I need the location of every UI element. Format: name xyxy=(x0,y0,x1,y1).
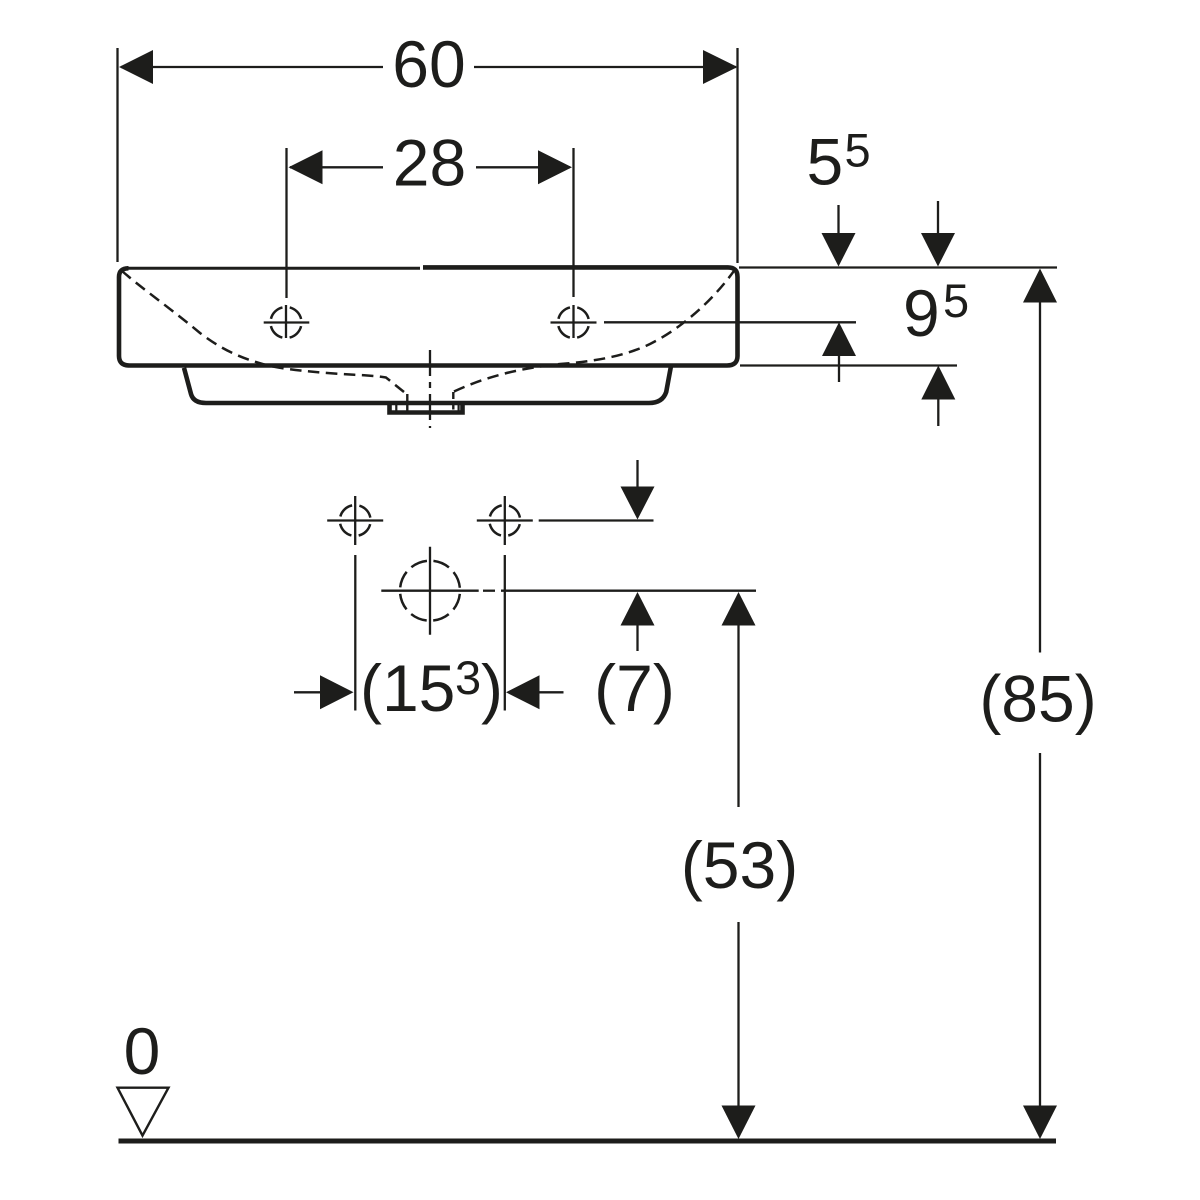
svg-text:0: 0 xyxy=(124,1014,161,1088)
dimension 9.5 arrow up A xyxy=(822,322,856,356)
svg-text:5: 5 xyxy=(807,125,844,199)
washbasin inner bowl dashed profile left xyxy=(122,271,404,392)
washbasin inner bowl dashed profile right xyxy=(454,269,736,392)
dimension 15.3 extension line right xyxy=(504,555,506,711)
dimension 7 arrow up xyxy=(621,592,655,626)
dimension 5.5 arrow down A xyxy=(837,205,839,235)
dimension 28 arrowhead right xyxy=(538,150,572,184)
reference line drain level xyxy=(501,590,756,592)
dimension 9.5 arrow up B xyxy=(921,366,955,400)
dimension 60 arrowhead right xyxy=(703,50,738,84)
drain circle xyxy=(400,561,460,621)
dimension 60 extension line left xyxy=(116,48,118,262)
svg-text:(85): (85) xyxy=(979,662,1096,736)
wall fixing hole right crosslines xyxy=(477,519,533,521)
dimension 28 extension line right xyxy=(572,148,574,297)
dimension 53 line lower xyxy=(737,922,739,1106)
drain fitting outline xyxy=(390,404,463,413)
dimension 85 line lower xyxy=(1039,753,1041,1106)
dimension 60 arrowhead left xyxy=(119,50,153,84)
reference line top rim extended xyxy=(739,266,1057,268)
drain hidden sides dashed xyxy=(406,394,408,412)
drain fitting inner lines xyxy=(395,404,397,412)
dimension 15.3 arrow left-pointing xyxy=(506,675,540,709)
dimension 28 line xyxy=(290,166,383,168)
dimension 5.5 arrow down B xyxy=(937,201,939,235)
svg-text:28: 28 xyxy=(393,126,466,200)
svg-text:5: 5 xyxy=(845,124,871,177)
dimension 60 extension line right xyxy=(736,48,738,263)
svg-text:): ) xyxy=(481,651,503,725)
dimension 15.3 extension line left xyxy=(354,555,356,711)
svg-text:5: 5 xyxy=(943,274,969,327)
faucet hole right crosslines xyxy=(551,321,597,323)
washbasin pedestal outline xyxy=(184,366,671,403)
reference line faucet hole level xyxy=(604,321,856,323)
wall fixing hole left circle xyxy=(340,505,371,536)
reference line bottom rim extended xyxy=(740,364,957,366)
svg-text:(15: (15 xyxy=(360,651,455,725)
dimension 53 arrow up xyxy=(722,592,756,626)
drain centerline horizontal xyxy=(381,590,478,592)
svg-text:(7): (7) xyxy=(594,651,675,725)
dimension 85 arrow down xyxy=(1023,1106,1057,1140)
dimension 28 arrowhead left xyxy=(289,150,323,184)
dimension 7 arrow down xyxy=(636,460,638,487)
reference line fixing hole level xyxy=(539,519,654,521)
drain centerline vertical in basin xyxy=(429,350,431,428)
svg-text:60: 60 xyxy=(392,27,465,101)
datum triangle xyxy=(118,1088,169,1136)
dimension 60 line xyxy=(121,66,383,68)
faucet hole left circle xyxy=(271,307,302,338)
svg-text:3: 3 xyxy=(455,651,481,704)
dimension 28 extension line left xyxy=(285,148,287,298)
washbasin outline thick xyxy=(119,267,738,365)
drain centerline vertical xyxy=(429,547,431,635)
wall fixing hole right circle xyxy=(489,505,520,536)
faucet hole right circle xyxy=(558,307,589,338)
washbasin top rim thin xyxy=(127,267,420,270)
svg-text:9: 9 xyxy=(903,276,940,350)
svg-text:(53): (53) xyxy=(681,828,798,902)
wall fixing hole left crosslines xyxy=(327,519,383,521)
dimension 85 arrow up xyxy=(1023,269,1057,303)
faucet hole left crosslines xyxy=(264,321,310,323)
dimension 15.3 arrow right-pointing xyxy=(294,691,321,693)
dimension 53 arrow down xyxy=(722,1106,756,1140)
floor line xyxy=(119,1139,1057,1144)
